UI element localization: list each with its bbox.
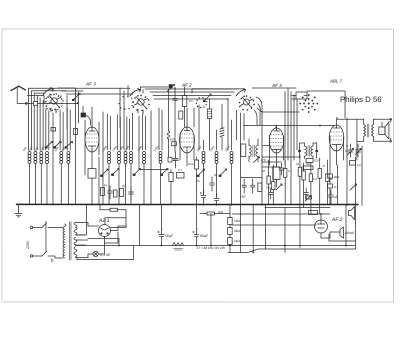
wire S1 downs <box>28 88 75 204</box>
coil L8 <box>118 151 121 163</box>
tube V5 output circle <box>314 220 327 233</box>
svg-text:AF 2: AF 2 <box>331 217 343 223</box>
wire az1 <box>88 218 126 243</box>
capacitor C7 var <box>355 144 361 157</box>
wire v2 leads <box>180 108 194 166</box>
svg-text:0,5: 0,5 <box>313 177 317 181</box>
capacitor C9 electrolytic <box>192 204 199 245</box>
switch SW1 <box>42 221 47 256</box>
node antenna connector <box>25 102 27 104</box>
wire s4 left rails <box>285 92 297 205</box>
svg-text:50µF: 50µF <box>165 234 173 238</box>
resistor R25 <box>169 172 173 181</box>
wire s4 box <box>296 92 307 99</box>
coil L15 sloped <box>220 126 224 150</box>
wire s2 downs <box>103 108 162 205</box>
wire mains <box>33 227 42 256</box>
wire v1 bottom <box>85 152 92 175</box>
trimmer arrow A2 <box>203 94 211 102</box>
resistor R15 <box>308 211 317 215</box>
svg-text:70: 70 <box>322 164 326 168</box>
resistor RG2 <box>170 137 176 145</box>
capacitor C3 el <box>200 190 206 206</box>
transducer TD1 <box>340 227 344 238</box>
resistor R0 <box>88 169 96 179</box>
wire rail300b <box>299 208 301 248</box>
coil L4 <box>46 151 49 163</box>
wire chain <box>229 206 231 253</box>
resistor R9 <box>283 169 286 178</box>
coil L18 stack <box>230 152 233 164</box>
wire bus2 right <box>228 205 356 253</box>
resistor R6 <box>303 166 313 170</box>
wire secondary taps <box>75 222 88 257</box>
coil labels <box>22 144 231 152</box>
coil L3 <box>40 151 43 163</box>
resistor RB2 <box>176 172 184 178</box>
resistor R4 <box>119 188 123 196</box>
svg-text:AZ 1: AZ 1 <box>98 218 110 224</box>
coil L14 <box>207 109 211 119</box>
svg-text:0,1: 0,1 <box>178 168 182 172</box>
trimmer T2a <box>100 175 103 177</box>
svg-text:100: 100 <box>314 159 319 163</box>
trimmer arrow right <box>350 184 357 190</box>
wire r0 down <box>92 157 99 205</box>
tube V3 ABL <box>269 128 283 153</box>
capacitor C0 <box>51 127 56 131</box>
capacitor C12 <box>250 179 255 193</box>
wire coils2 to ground <box>109 164 161 205</box>
svg-text:1kΩ: 1kΩ <box>234 219 240 223</box>
svg-text:25: 25 <box>296 162 300 166</box>
capacitor grid V1 <box>81 113 86 117</box>
antenna coupling box <box>34 101 38 105</box>
node dot 320 <box>319 125 321 127</box>
wire l14 <box>209 99 211 150</box>
wire rail285b <box>284 208 286 253</box>
tube V1 AF3 <box>85 127 99 152</box>
wire coils to ground bus <box>29 150 68 205</box>
svg-text:AF 3: AF 3 <box>271 83 282 88</box>
svg-text:4µF: 4µF <box>241 195 246 199</box>
wire r1b <box>184 87 186 127</box>
capacitor C4 el <box>214 193 219 206</box>
scan page frame <box>2 29 394 302</box>
coil L1 <box>28 151 31 163</box>
resistor R3 <box>100 187 104 195</box>
wire l13 <box>168 89 170 157</box>
wire gridcap <box>83 106 91 125</box>
svg-text:220V: 220V <box>26 240 30 249</box>
band switch S1 <box>43 87 64 113</box>
wire mid rails <box>194 99 228 150</box>
svg-text:1Ω: 1Ω <box>357 163 361 167</box>
svg-text:0,1: 0,1 <box>334 185 339 189</box>
resistor R7 <box>267 176 270 184</box>
svg-text:0,1: 0,1 <box>288 169 292 173</box>
capacitor C10 <box>328 190 333 205</box>
trimmer T2b <box>111 174 114 176</box>
wire ant ext <box>44 102 77 104</box>
resistor R13 <box>318 168 321 178</box>
rectifier AZ1 <box>98 224 110 240</box>
coil L9 <box>124 151 127 163</box>
transformer TR1 secondary <box>74 222 77 257</box>
potentiometer P1 <box>276 184 282 190</box>
coil L7 <box>108 151 111 163</box>
svg-text:1M: 1M <box>266 186 271 190</box>
svg-text:2mA: 2mA <box>188 162 194 166</box>
speaker SP1 <box>379 118 392 142</box>
ground bus <box>16 203 357 205</box>
coil L16 stack <box>202 152 205 164</box>
wire ot1 top <box>337 119 391 160</box>
trimmer T1c <box>65 141 73 148</box>
wire v3 leads <box>270 126 284 168</box>
wire td1 <box>330 232 340 238</box>
coil L6 <box>67 151 70 163</box>
wire rail253 <box>240 178 262 253</box>
resistor R5 <box>306 159 313 163</box>
wire top rail2 <box>66 93 128 95</box>
svg-text:1m: 1m <box>189 99 194 103</box>
capacitor C8 electrolytic <box>157 204 164 245</box>
svg-text:100: 100 <box>170 137 175 141</box>
output transformer OT1 <box>364 119 374 141</box>
svg-text:470: 470 <box>261 158 266 162</box>
wire rail139 <box>138 204 140 245</box>
shield box SB1 <box>241 144 246 157</box>
node dot s2 <box>170 86 172 88</box>
wire top s2-s4 <box>192 88 296 160</box>
capacitor C13 <box>268 188 273 199</box>
wire right block verticals <box>269 155 328 214</box>
svg-text:50: 50 <box>262 169 266 173</box>
capacitor C6 var <box>348 144 354 157</box>
resistor NTC <box>100 204 126 227</box>
tube V4 output <box>329 125 344 151</box>
wire filament bottom <box>77 245 133 259</box>
wire S1 routing box <box>44 88 83 103</box>
trimmer T3b <box>219 175 222 177</box>
wire switch to transformer <box>48 227 63 258</box>
IF transformer IFT1 <box>249 139 258 162</box>
trimmer arrow A1 <box>72 93 80 101</box>
resistor R24 <box>195 160 199 169</box>
misc tiny labels <box>104 149 361 231</box>
resistor R1b <box>182 95 193 106</box>
wire v3 t4 link <box>257 108 299 112</box>
capacitor C15 <box>173 152 178 168</box>
wire s3 down rails <box>236 110 244 253</box>
wire lamp <box>88 243 105 258</box>
wire v1 top <box>85 107 99 155</box>
coil L11 <box>143 151 146 163</box>
svg-text:AF 3: AF 3 <box>85 81 96 86</box>
trimmer blob <box>169 84 173 88</box>
svg-text:0,1 W: 0,1 W <box>100 253 110 257</box>
tube V2 AF2 <box>180 127 195 153</box>
coil L13 <box>167 131 170 139</box>
wire v4 top rail <box>307 91 345 118</box>
svg-text:50µF: 50µF <box>200 234 208 238</box>
mains terminal upper <box>30 226 32 228</box>
wire v5 leads <box>321 214 330 238</box>
wire r25 <box>170 169 172 204</box>
wire gnd trans tap <box>75 204 86 235</box>
resistor R2 <box>179 111 183 119</box>
svg-text:100: 100 <box>306 162 311 166</box>
wire s2 box <box>120 85 133 128</box>
wire trimrow <box>139 168 168 170</box>
resistor R8 <box>272 182 275 190</box>
wire rail211 <box>200 214 230 246</box>
capacitor C2 <box>209 177 214 191</box>
band switch S3 <box>196 88 255 110</box>
resistor R14 <box>326 174 329 182</box>
wire v5 frame <box>329 234 356 241</box>
wire r24 <box>195 157 197 205</box>
resistor R18 chain3 <box>228 238 233 245</box>
svg-text:2kΩ: 2kΩ <box>334 175 340 179</box>
lamp LP1 <box>93 251 98 256</box>
tube socket S4 <box>299 94 318 113</box>
svg-text:1kΩ: 1kΩ <box>234 239 240 243</box>
resistor R22 <box>305 196 312 202</box>
capacitor C5 <box>279 163 284 175</box>
resistor R21 <box>207 212 215 215</box>
wire az1 cathode down <box>88 238 119 245</box>
trimmer arrow A3 <box>167 84 175 91</box>
coil L12 <box>159 151 162 163</box>
svg-text:60mA: 60mA <box>345 231 355 235</box>
svg-text:27 = 48 kHz (2V eff): 27 = 48 kHz (2V eff) <box>196 246 224 250</box>
wire v4 leads <box>330 119 344 204</box>
coil L10 <box>130 151 133 163</box>
resistor R16 chain1 <box>228 218 233 225</box>
trimmer T2d <box>160 174 163 176</box>
B+ bus <box>75 244 354 246</box>
svg-text:50: 50 <box>214 173 218 177</box>
wire antenna stem <box>17 87 44 103</box>
resistor R12 <box>309 174 312 182</box>
resistor R17 chain2 <box>228 228 233 235</box>
svg-text:Tr: Tr <box>50 258 54 263</box>
wire speaker <box>373 122 390 141</box>
resistor R26 <box>327 174 340 179</box>
wire S1 to S2 top <box>52 88 54 91</box>
trimmer T2c <box>133 174 136 176</box>
capacitor R1 vertical <box>173 88 178 152</box>
wire s3 arcs right <box>254 97 262 125</box>
resistor RB3 <box>273 167 280 180</box>
resistor R28 online <box>74 128 78 134</box>
mains terminal lower <box>30 255 32 257</box>
coil L17 stack <box>215 152 218 164</box>
svg-text:2mA: 2mA <box>173 158 179 162</box>
wire right block horizontals <box>262 125 300 206</box>
wire rail337 <box>345 205 347 246</box>
trimmer T1b <box>53 141 61 148</box>
transducer TD2 <box>348 207 354 220</box>
trimmer arrow ift1 <box>254 157 260 163</box>
resistor R10 <box>298 167 301 176</box>
resistor R20 zigzag <box>172 243 183 250</box>
transformer TR1 primary <box>63 224 66 258</box>
wire ift1 v3 <box>262 145 269 147</box>
transformer TR1 core <box>69 222 71 260</box>
resistor R23 <box>258 183 262 192</box>
wire coils3 down <box>203 120 231 206</box>
svg-text:25: 25 <box>197 179 201 183</box>
wire vert67 <box>67 92 78 129</box>
antenna <box>11 86 26 90</box>
IF transformer IFT2 <box>299 143 318 159</box>
svg-text:ABL 7: ABL 7 <box>329 79 342 84</box>
resistor R4b <box>113 190 117 197</box>
node dot77 <box>77 102 79 104</box>
resistor RK2 <box>168 157 179 162</box>
resistor R27 <box>327 184 338 189</box>
svg-text:µF: µF <box>334 195 338 199</box>
trimmer T1a <box>45 141 53 148</box>
capacitor C1 <box>107 186 112 199</box>
wire right column <box>347 118 362 206</box>
resistor R11 <box>302 171 305 180</box>
wire rb3 <box>275 180 277 188</box>
ground <box>15 204 22 217</box>
capacitor C1b <box>128 187 133 200</box>
svg-text:Philips D 56: Philips D 56 <box>340 95 382 104</box>
svg-text:2kΩ: 2kΩ <box>234 229 240 233</box>
svg-text:AF 2: AF 2 <box>181 82 192 87</box>
band switch S2 <box>118 88 149 114</box>
wire s2 to right rails <box>145 89 238 99</box>
capacitor C14 <box>304 188 309 199</box>
wire s2 loop <box>140 87 168 93</box>
capacitor C11 <box>242 179 247 193</box>
wire S1 tops <box>28 88 131 95</box>
wire rail269 <box>264 205 266 250</box>
wire grid line 125 <box>244 125 335 127</box>
trimmer T3a <box>197 175 200 177</box>
wire r26 <box>329 165 331 205</box>
coil L2 <box>34 151 37 163</box>
resistor R19 <box>350 161 356 166</box>
coil L5 <box>60 151 63 163</box>
